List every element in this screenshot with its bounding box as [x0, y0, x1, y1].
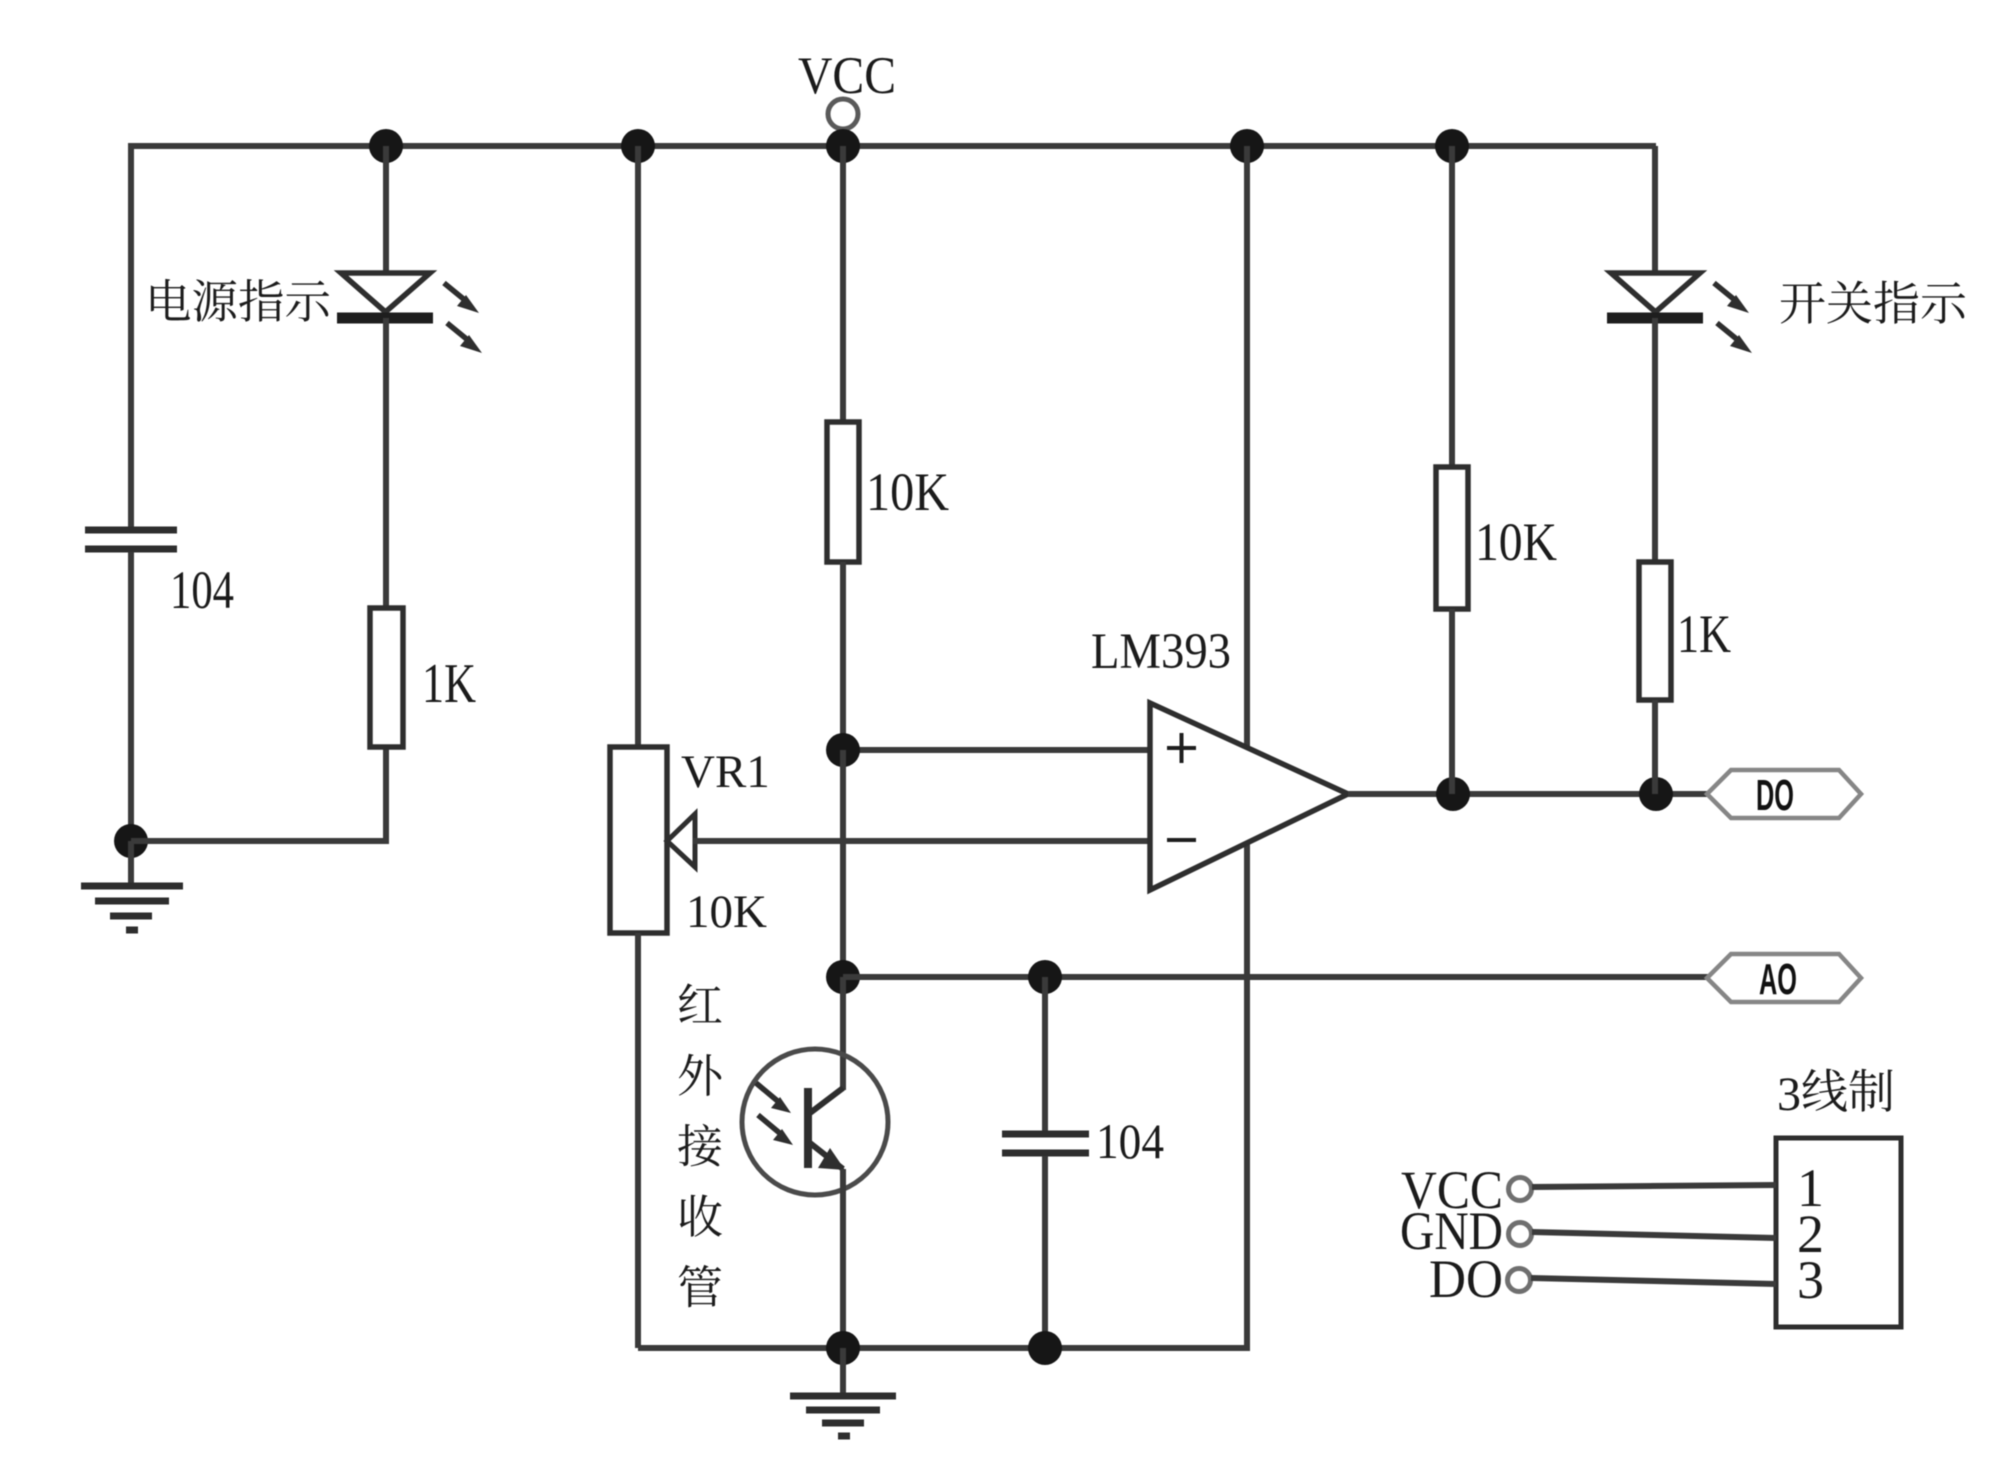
label 红 (红外接收管 vertical): [679, 983, 721, 1022]
terminal VCC: [1509, 1178, 1532, 1201]
phototransistor light arrows: [756, 1083, 780, 1103]
wire: bottom ground rail: [638, 1345, 1250, 1351]
node: AO junction: [826, 960, 860, 994]
node: bottom rail junction (emitter): [826, 1331, 860, 1365]
wire: VR1 branch from rail: [635, 146, 641, 747]
pin -: [1167, 838, 1196, 842]
LED D2 light arrows: [1714, 283, 1736, 301]
svg-text:1K: 1K: [422, 653, 476, 715]
wire: 1K bottom to ground junction: [131, 747, 386, 841]
resistor R4 1K: [1639, 562, 1671, 700]
wire: DO to pin 3: [1531, 1278, 1776, 1284]
terminal DO: [1508, 1269, 1531, 1292]
svg-text:104: 104: [1096, 1113, 1164, 1169]
node: top rail junction 3: [826, 129, 860, 163]
wire: GND to pin 2: [1532, 1232, 1776, 1238]
VR1 wiper arrow: [667, 814, 695, 867]
LED D1 light arrows: [444, 283, 466, 301]
node: top rail junction 4: [1230, 129, 1264, 163]
wire: capacitor to ground node: [128, 552, 134, 841]
wire: LED to 1K: [1652, 318, 1658, 562]
output tag DO: [1707, 770, 1861, 818]
label 管 (红外接收管 vertical): [679, 1265, 721, 1307]
resistor R3 10K: [1436, 467, 1468, 609]
svg-text:VCC: VCC: [798, 47, 896, 105]
node: output junction (1K): [1639, 777, 1673, 811]
resistor R2 1K: [370, 608, 403, 747]
svg-text:AO: AO: [1759, 955, 1797, 1004]
node: top rail junction 5: [1435, 129, 1469, 163]
wire: middle 10K branch from rail: [840, 146, 846, 422]
phototransistor Q1: [742, 1049, 888, 1195]
label 接 (红外接收管 vertical): [678, 1124, 721, 1167]
svg-text:1K: 1K: [1677, 604, 1731, 664]
connector J1 3-wire: [1776, 1138, 1901, 1327]
svg-text:10K: 10K: [1475, 512, 1557, 572]
wire: resistor to +input node: [840, 562, 846, 750]
svg-text:DO: DO: [1756, 771, 1794, 820]
wire: emitter to bottom rail: [840, 1169, 846, 1348]
resistor R1 10K: [827, 422, 859, 562]
wire: filter capacitor branch: [1042, 977, 1048, 1131]
potentiometer VR1 body: [610, 747, 667, 933]
op-amp U1 LM393: [1150, 703, 1348, 890]
LED D2 switch indicator: [1611, 273, 1700, 312]
LED D1 power indicator: [341, 273, 430, 312]
svg-text:3: 3: [1777, 1068, 1801, 1121]
label 电源指示: [151, 279, 190, 320]
pin +: [1167, 733, 1196, 763]
wire: wiper to comparator inverting input: [693, 838, 1150, 844]
node: top rail junction 2: [621, 129, 655, 163]
label 开关指示: [1781, 282, 1825, 324]
wire: +input node down to AO node: [840, 750, 846, 977]
node: top rail junction 1: [369, 129, 403, 163]
wire: comparator output to DO tag: [1348, 791, 1708, 797]
terminal GND: [1509, 1223, 1532, 1246]
VCC power terminal: [828, 99, 858, 129]
svg-text:DO: DO: [1429, 1249, 1503, 1309]
wire: comparator power rail drop: [1244, 146, 1250, 1348]
wire: switch LED branch: [1652, 146, 1658, 272]
wire: right 10K pull-up branch: [1449, 146, 1455, 467]
svg-text:VR1: VR1: [681, 746, 770, 798]
wire: left branch down to capacitor: [128, 143, 134, 527]
label 收 (红外接收管 vertical): [680, 1195, 722, 1237]
node: output junction (10K): [1436, 777, 1470, 811]
wire: LED to resistor: [383, 318, 389, 608]
node: bottom rail junction (capacitor): [1028, 1331, 1062, 1365]
capacitor C1 104: [85, 527, 177, 534]
node: +input junction: [826, 733, 860, 767]
wire: +input node to comparator: [843, 747, 1150, 753]
svg-text:LM393: LM393: [1091, 624, 1231, 680]
ground GND2: [840, 1348, 846, 1394]
node: capacitor tap junction: [1028, 960, 1062, 994]
label 外 (红外接收管 vertical): [679, 1054, 721, 1096]
wire: AO line to output tag: [843, 974, 1708, 980]
output tag AO: [1707, 954, 1861, 1002]
svg-text:10K: 10K: [686, 886, 767, 938]
node: left ground junction: [114, 824, 148, 858]
wire: VR1 bottom to bottom rail: [635, 933, 641, 1348]
wire: AO node down to phototransistor collector: [840, 977, 846, 1090]
svg-text:104: 104: [170, 560, 234, 620]
svg-text:3: 3: [1797, 1250, 1824, 1310]
wire: VCC top rail: [131, 143, 1656, 149]
capacitor C2 104: [1002, 1131, 1089, 1138]
svg-text:10K: 10K: [866, 462, 949, 522]
ground GND1: [128, 841, 134, 886]
wire: power LED branch from rail: [383, 146, 389, 272]
wire: VCC to pin 1: [1532, 1185, 1776, 1187]
